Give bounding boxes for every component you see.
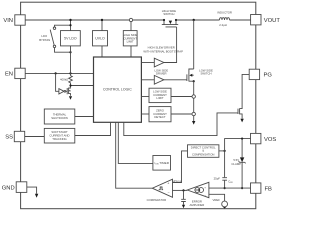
svg-text:+: + <box>167 181 169 185</box>
node sense circle ZCD <box>192 112 195 115</box>
wire HS current limit to control logic <box>130 46 132 57</box>
node junction EA output <box>182 189 184 191</box>
svg-text:INDUCTOR: INDUCTOR <box>217 11 232 15</box>
wire SS pin to soft start <box>25 136 44 138</box>
node junction VIN-LDO <box>69 19 71 21</box>
wire DCC to comparator plus input <box>173 151 188 183</box>
wire LDO output to EN pulldown <box>70 46 72 76</box>
inductor 2.2uH <box>217 11 232 27</box>
svg-text:WITH INTERNAL BOOTSTRAP: WITH INTERNAL BOOTSTRAP <box>143 50 183 54</box>
wire HS current limit sense tap <box>130 22 132 31</box>
source VREF reference <box>212 198 227 209</box>
wire control logic to ZCD <box>141 113 149 115</box>
block low side current limit <box>149 88 171 102</box>
wire control logic to LS driver <box>141 79 154 81</box>
svg-text:BYPASS: BYPASS <box>39 38 50 42</box>
wire error amp to VREF <box>209 194 225 201</box>
svg-text:2.2µH: 2.2µH <box>219 23 227 27</box>
resistor 400k EN pulldown <box>69 76 73 88</box>
svg-text:CLAMP: CLAMP <box>231 162 241 166</box>
transistor PG open drain FET <box>238 108 244 123</box>
pin PG <box>249 69 272 79</box>
wire control logic to timer <box>118 122 153 163</box>
inverter EN buffer <box>56 73 68 94</box>
wire ZCD sense <box>171 113 192 115</box>
svg-text:AMPLIFIER: AMPLIFIER <box>190 203 205 207</box>
transistor high side switch PMOS <box>162 9 178 27</box>
node junction resistor-FET <box>69 84 71 86</box>
svg-text:PG: PG <box>264 73 273 79</box>
driver high slew <box>143 46 183 67</box>
wire DCC to VOS node <box>219 150 225 152</box>
wire HS driver to PMOS gate <box>164 27 177 63</box>
svg-text:FB: FB <box>265 186 273 192</box>
svg-text:TRACKING: TRACKING <box>52 137 66 141</box>
svg-text:DRIVER: DRIVER <box>156 72 167 76</box>
wire control logic to HS driver <box>141 62 154 64</box>
block softstart current and tracking <box>44 128 75 143</box>
diode 5.5V clamp zener <box>231 139 245 189</box>
block high side current limit <box>123 31 137 46</box>
transistor low side switch NMOS <box>187 68 213 82</box>
svg-text:400kΩ: 400kΩ <box>60 77 68 81</box>
wire SW rail to VOUT <box>176 19 251 21</box>
IC outer boundary box <box>21 2 256 209</box>
svg-text:SWITCH: SWITCH <box>200 72 211 76</box>
block thermal shutdown <box>44 109 75 124</box>
wire control logic to LSCL <box>141 96 149 98</box>
svg-text:VIN: VIN <box>3 18 13 24</box>
node junction VIN-UVLO <box>101 19 103 21</box>
svg-text:25pF: 25pF <box>214 176 221 180</box>
wire thermal shutdown to control logic <box>75 116 94 118</box>
block control logic <box>94 57 142 122</box>
pin VIN <box>3 15 25 25</box>
wire FB pin to error amplifier <box>209 187 251 189</box>
wire VIN rail <box>25 19 164 21</box>
svg-text:VOUT: VOUT <box>264 18 280 24</box>
wire LSCL sense <box>171 96 192 98</box>
wire UVLO feed <box>101 20 103 31</box>
svg-text:LIMIT: LIMIT <box>127 40 134 44</box>
svg-text:LIMIT: LIMIT <box>156 96 163 100</box>
block zero current detect <box>149 107 171 122</box>
wire comparator output to control logic <box>116 122 153 188</box>
wire VOS pin line <box>225 139 251 178</box>
svg-text:COMPENSATION: COMPENSATION <box>192 152 214 156</box>
node junction DCC-VOS <box>224 150 226 152</box>
node junction cap-FB <box>224 187 226 189</box>
wire low side source to ground <box>193 81 195 121</box>
svg-text:UVLO: UVLO <box>95 37 105 41</box>
wire LDO top feed <box>70 20 72 31</box>
svg-text:5V LDO: 5V LDO <box>64 37 77 41</box>
ground GND pin symbol <box>27 187 38 198</box>
transistor EN pulldown FET <box>67 87 72 100</box>
pin VOS <box>251 133 277 143</box>
block tON timer <box>153 156 171 171</box>
block direct control and compensation <box>188 145 219 158</box>
svg-text:−: − <box>168 190 170 194</box>
node junction VOS-zener <box>241 138 243 140</box>
comparator UVLO <box>93 31 108 46</box>
switch LDO bypass <box>39 24 71 53</box>
wire UVLO to control logic <box>101 46 103 57</box>
svg-text:EN: EN <box>5 72 13 78</box>
svg-text:SWITCH: SWITCH <box>163 12 174 16</box>
capacitor compensation to ground <box>181 190 186 208</box>
node sense circle on VIN rail <box>129 18 132 21</box>
regulator 5V LDO <box>61 31 81 46</box>
wire LS driver to NMOS gate <box>164 79 187 81</box>
node junction EN-pulldown <box>69 72 71 74</box>
pin FB <box>251 183 273 193</box>
svg-text:DETECT: DETECT <box>154 115 165 119</box>
wire EN comparator output to control logic <box>71 85 94 87</box>
node junction SW <box>193 19 195 21</box>
wire PG pin to open drain FET <box>242 74 249 107</box>
wire error amp output to comparator minus <box>173 189 188 191</box>
svg-text:GND: GND <box>2 186 15 192</box>
svg-text:CONTROL LOGIC: CONTROL LOGIC <box>103 88 132 92</box>
pin GND <box>2 182 27 193</box>
driver low side <box>154 68 168 84</box>
node sense circle LSCL <box>192 95 195 98</box>
wire SW node down to low side switch <box>193 20 195 69</box>
pin VOUT <box>251 15 281 25</box>
svg-text:SHUTDOWN: SHUTDOWN <box>51 116 67 120</box>
node junction zener-FB <box>241 187 243 189</box>
comparator main <box>147 179 173 202</box>
capacitor 25pF feed forward <box>214 176 234 188</box>
amplifier error amplifier <box>187 182 209 207</box>
pin SS <box>5 131 24 141</box>
svg-text:VREF: VREF <box>212 198 220 202</box>
wire soft start to control logic <box>75 122 111 135</box>
svg-text:COMPARATOR: COMPARATOR <box>147 198 167 202</box>
wire control logic to PG gate <box>124 113 238 136</box>
svg-text:VOS: VOS <box>264 137 276 143</box>
pin EN <box>5 68 25 78</box>
svg-text:SS: SS <box>5 135 13 141</box>
wire EN line <box>25 72 93 74</box>
node junction EN-inverter <box>55 72 57 74</box>
